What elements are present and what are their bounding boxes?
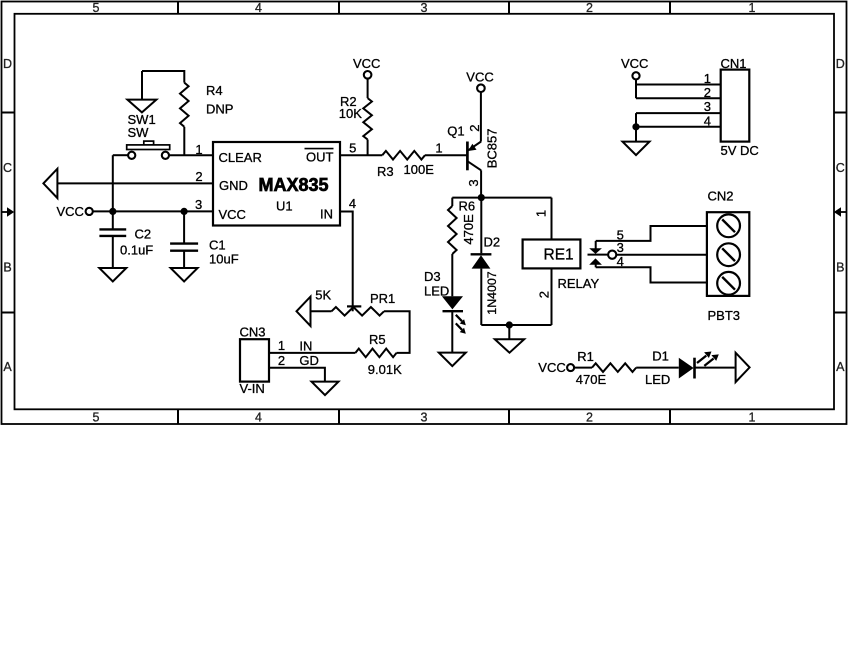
svg-text:C: C	[836, 161, 845, 175]
svg-text:4: 4	[255, 411, 262, 425]
pin number 1 (Q1 base)	[435, 140, 442, 155]
wire contact pin4 to CN2	[596, 267, 707, 282]
pin number 2 (CN1)	[704, 85, 711, 100]
svg-text:C2: C2	[135, 227, 152, 242]
junction dot VCC/C1	[181, 208, 188, 215]
junction dot collector	[478, 194, 485, 201]
U1 pin name GND	[219, 178, 248, 193]
label R2	[340, 94, 357, 109]
svg-text:1: 1	[704, 71, 711, 86]
wire CN1 pin3	[636, 112, 721, 114]
U1 pin name IN	[320, 207, 333, 222]
label VCC (CN1)	[621, 56, 648, 71]
wire R3 to Q1 base	[425, 154, 466, 156]
svg-text:D3: D3	[424, 269, 441, 284]
connector CN1 body	[721, 70, 750, 142]
pin number 4 (U1 IN)	[349, 196, 356, 211]
capacitor C2	[99, 211, 126, 268]
switch SW1 pushbutton	[113, 141, 170, 159]
wire CN1 pin4	[636, 126, 721, 128]
ground CN1	[623, 142, 650, 156]
resistor R4	[180, 83, 189, 127]
junction dot VCC/C2	[109, 208, 116, 215]
svg-text:R6: R6	[459, 198, 476, 213]
wire CN3 pin2	[269, 368, 325, 382]
wire D2 top	[480, 198, 482, 254]
label RELAY	[558, 276, 600, 291]
label Q1	[447, 123, 464, 138]
wire D1 to port	[695, 367, 735, 369]
wire top horizontal to R4	[142, 71, 184, 83]
label LED (D3)	[424, 284, 449, 299]
label CN1	[721, 56, 747, 71]
svg-text:1: 1	[749, 1, 756, 15]
svg-text:4: 4	[349, 196, 356, 211]
svg-text:R1: R1	[577, 349, 594, 364]
label 5V DC	[721, 143, 759, 158]
svg-text:D: D	[3, 57, 12, 71]
svg-text:D: D	[836, 57, 845, 71]
svg-text:R3: R3	[377, 164, 394, 179]
U1 value MAX835	[259, 175, 329, 195]
svg-text:U1: U1	[276, 199, 293, 214]
frame outer border	[2, 2, 847, 425]
wire Q1 collector down	[480, 170, 482, 197]
relay contact circle	[608, 251, 616, 259]
label BC857	[484, 129, 499, 169]
port GND-IN (left triangle)	[43, 169, 57, 198]
transistor Q1 collector	[468, 161, 481, 170]
connector CN2 body	[707, 212, 749, 296]
svg-text:LED: LED	[424, 284, 449, 299]
svg-text:R5: R5	[369, 332, 386, 347]
svg-text:VCC: VCC	[538, 360, 565, 375]
wire pin1 CLEAR	[169, 154, 213, 156]
connector CN3 body	[240, 339, 269, 381]
terminal VCC (pin3)	[86, 208, 93, 215]
frame zone labels	[3, 1, 845, 425]
U1 pin name OUT (with overline)	[305, 149, 334, 165]
ground D3	[439, 353, 466, 367]
wire D2 to bottom bus	[480, 269, 482, 325]
label 1N4007	[485, 271, 499, 315]
svg-text:OUT: OUT	[306, 150, 334, 165]
svg-text:5: 5	[93, 411, 100, 425]
svg-text:DNP: DNP	[206, 102, 233, 117]
svg-text:1: 1	[749, 411, 756, 425]
frame right centering arrow	[834, 207, 847, 216]
label 0.1uF	[120, 242, 153, 257]
wire SW1 left leg down	[112, 155, 114, 211]
svg-text:PBT3: PBT3	[708, 308, 741, 323]
U1 pin name VCC	[219, 207, 246, 222]
svg-text:VCC: VCC	[466, 69, 493, 84]
svg-text:LED: LED	[645, 372, 670, 387]
svg-text:CN1: CN1	[721, 56, 747, 71]
wire R2 to pin5	[367, 140, 369, 156]
ground relay bus	[495, 339, 524, 353]
wire RE1 pin1	[551, 198, 553, 240]
label 470E (R1)	[576, 372, 607, 387]
svg-text:B: B	[3, 261, 11, 275]
relay RE1 body	[523, 240, 581, 269]
svg-text:2: 2	[586, 411, 593, 425]
ground C2	[99, 268, 126, 282]
svg-text:1: 1	[534, 210, 549, 217]
svg-text:2: 2	[467, 125, 482, 132]
terminal VCC (R2 top)	[364, 71, 372, 79]
label PR1	[370, 291, 395, 306]
wire ground stub (bus)	[508, 325, 510, 339]
wire PR1 right loop	[384, 311, 410, 353]
U1 pin name CLEAR	[219, 150, 262, 165]
junction dot CN1 gnd	[632, 123, 639, 130]
label PBT3	[708, 308, 741, 323]
svg-text:BC857: BC857	[484, 129, 499, 169]
label V-IN	[240, 381, 265, 396]
wire SW1 top to port	[141, 71, 143, 100]
svg-text:SW: SW	[128, 125, 150, 140]
pin number 4 (CN1)	[704, 113, 711, 128]
pin number 1 (CN3)	[278, 338, 285, 353]
label GD (CN3)	[299, 353, 319, 368]
label IN (CN3)	[299, 338, 312, 353]
svg-text:A: A	[836, 360, 845, 374]
svg-text:VCC: VCC	[353, 56, 380, 71]
frame inner border	[15, 14, 835, 410]
resistor R3	[382, 151, 425, 160]
capacitor C1	[170, 211, 198, 268]
frame left centering arrow	[2, 207, 15, 216]
svg-text:CN3: CN3	[240, 324, 266, 339]
pin number 1 (U1 CLEAR)	[195, 142, 202, 157]
label VCC (pin3)	[57, 204, 84, 219]
label R6	[459, 198, 476, 213]
label CN2	[708, 188, 734, 203]
svg-text:3: 3	[195, 197, 202, 212]
svg-text:B: B	[836, 261, 844, 275]
wire R4 bottom to pin1	[183, 127, 185, 155]
label R1	[577, 349, 594, 364]
wire R1 to D1	[636, 367, 679, 369]
wire CN1 vcc leg	[635, 79, 637, 98]
svg-text:5: 5	[93, 1, 100, 15]
svg-text:10K: 10K	[339, 106, 362, 121]
ground CN3	[312, 382, 339, 396]
terminal VCC (Q1)	[477, 84, 485, 92]
led D3 arrows	[456, 315, 466, 334]
label 100E	[404, 162, 435, 177]
resistor R2	[363, 98, 372, 139]
terminal VCC (CN1)	[632, 72, 639, 79]
label 470E (R6)	[461, 214, 476, 245]
label LED (D1)	[645, 372, 670, 387]
wire R5 to CN3 pin1	[269, 352, 355, 354]
svg-text:10uF: 10uF	[209, 252, 239, 267]
relay contact common	[588, 241, 609, 267]
svg-text:4: 4	[255, 1, 262, 15]
resistor R6	[448, 206, 457, 254]
svg-text:R4: R4	[206, 83, 223, 98]
label R4	[206, 83, 223, 98]
port 5K (left triangle)	[297, 297, 311, 326]
label VCC (Q1)	[466, 69, 493, 84]
wire RE1 pin2	[551, 268, 553, 325]
svg-text:1: 1	[195, 142, 202, 157]
terminal VCC (R1)	[567, 364, 574, 371]
svg-text:MAX835: MAX835	[259, 175, 329, 195]
op-amp U1 MAX835 body	[213, 142, 340, 226]
svg-text:2: 2	[278, 353, 285, 368]
svg-text:9.01K: 9.01K	[368, 362, 402, 377]
transistor Q1 emitter	[468, 142, 481, 152]
svg-text:4: 4	[704, 113, 711, 128]
pin number 2 (RE1)	[536, 291, 551, 298]
svg-text:5V DC: 5V DC	[721, 143, 759, 158]
svg-text:470E: 470E	[461, 214, 476, 245]
label CN3	[240, 324, 266, 339]
svg-text:C: C	[3, 161, 12, 175]
svg-text:V-IN: V-IN	[240, 381, 265, 396]
frame zone ticks	[2, 2, 847, 425]
label R3	[377, 164, 394, 179]
wire PR1 left to port	[311, 310, 332, 312]
svg-text:4: 4	[617, 254, 624, 269]
wire pin2 GND	[58, 182, 213, 184]
svg-text:5: 5	[349, 141, 356, 156]
pin number 4 (CN2)	[617, 254, 624, 269]
wire VCC to R1	[574, 367, 592, 369]
label 10uF	[209, 252, 239, 267]
label DNP	[206, 102, 233, 117]
svg-text:VCC: VCC	[219, 207, 246, 222]
svg-text:2: 2	[195, 169, 202, 184]
svg-text:1N4007: 1N4007	[485, 271, 499, 315]
potentiometer PR1	[332, 307, 385, 316]
svg-text:GD: GD	[299, 353, 319, 368]
pin number 5 (U1 OUT)	[349, 141, 356, 156]
label D1	[652, 349, 669, 364]
label 10K	[339, 106, 362, 121]
svg-text:GND: GND	[219, 178, 248, 193]
wire D3 to ground	[451, 311, 453, 352]
label 9.01K	[368, 362, 402, 377]
potentiometer PR1 wiper	[347, 306, 361, 311]
wire bottom bus	[481, 324, 551, 326]
svg-text:CLEAR: CLEAR	[219, 150, 262, 165]
port SW (down triangle)	[127, 100, 156, 113]
pin number 1 (RE1)	[534, 210, 549, 217]
wire R6 to D3	[451, 254, 453, 296]
svg-text:IN: IN	[299, 338, 312, 353]
label D3	[424, 269, 441, 284]
U1 reference U1	[276, 199, 293, 214]
resistor R5	[355, 349, 396, 358]
svg-text:5K: 5K	[315, 288, 331, 303]
pin number 5 (CN2)	[617, 227, 624, 242]
svg-text:3: 3	[421, 1, 428, 15]
svg-text:3: 3	[466, 179, 481, 186]
pin number 2 (U1 GND)	[195, 169, 202, 184]
wire contact pin5 to CN2	[596, 226, 707, 241]
label SW	[128, 125, 150, 140]
svg-text:PR1: PR1	[370, 291, 395, 306]
label 5K	[315, 288, 331, 303]
label SW1	[128, 112, 156, 127]
led D1	[679, 358, 695, 379]
wire VCC to R2	[367, 79, 369, 99]
wire pin3 VCC	[93, 210, 213, 212]
wire pin4 IN	[340, 212, 353, 307]
wire CN1 pin1	[636, 84, 721, 86]
wire VCC to Q1 emitter	[480, 92, 482, 142]
svg-text:RELAY: RELAY	[558, 276, 600, 291]
label VCC (R2)	[353, 56, 380, 71]
svg-text:3: 3	[421, 411, 428, 425]
pin number 3 (U1 VCC)	[195, 197, 202, 212]
pin number 1 (CN1)	[704, 71, 711, 86]
port LED out (right triangle)	[736, 353, 750, 382]
pin number 3 (Q1 collector)	[466, 179, 481, 186]
wire CN1 pin2	[636, 97, 721, 99]
label D2	[484, 235, 501, 250]
label VCC (R1)	[538, 360, 565, 375]
led D3	[442, 296, 463, 311]
diode D2	[471, 254, 492, 268]
svg-text:Q1: Q1	[447, 123, 464, 138]
svg-text:470E: 470E	[576, 372, 607, 387]
resistor R1	[592, 363, 636, 372]
label C1	[209, 238, 226, 253]
svg-text:A: A	[3, 360, 12, 374]
svg-text:2: 2	[536, 291, 551, 298]
svg-text:RE1: RE1	[544, 247, 574, 264]
led D1 arrows	[697, 352, 719, 366]
wire pin5 OUT to R3	[340, 154, 382, 156]
label C2	[135, 227, 152, 242]
wire CN1 gnd leg	[635, 113, 637, 142]
svg-text:VCC: VCC	[621, 56, 648, 71]
pin number 2 (Q1 emitter)	[467, 125, 482, 132]
svg-text:VCC: VCC	[57, 204, 84, 219]
svg-text:2: 2	[586, 1, 593, 15]
ground C1	[171, 268, 198, 282]
svg-text:3: 3	[704, 99, 711, 114]
wire contact pin3 to CN2	[616, 254, 707, 256]
svg-text:D1: D1	[652, 349, 669, 364]
wire collector bus	[452, 197, 551, 199]
label R5	[369, 332, 386, 347]
svg-text:C1: C1	[209, 238, 226, 253]
junction dot bottom bus	[506, 321, 513, 328]
pin number 3 (CN2)	[617, 240, 624, 255]
svg-text:0.1uF: 0.1uF	[120, 242, 153, 257]
svg-text:IN: IN	[320, 207, 333, 222]
pin number 2 (CN3)	[278, 353, 285, 368]
svg-text:1: 1	[435, 140, 442, 155]
svg-text:CN2: CN2	[708, 188, 734, 203]
svg-text:1: 1	[278, 338, 285, 353]
connector CN2 screw terminals	[717, 214, 740, 294]
transistor Q1 base bar	[466, 142, 469, 171]
wire R6 top	[451, 198, 453, 206]
pin number 3 (CN1)	[704, 99, 711, 114]
svg-text:2: 2	[704, 85, 711, 100]
svg-text:D2: D2	[484, 235, 501, 250]
svg-text:100E: 100E	[404, 162, 435, 177]
